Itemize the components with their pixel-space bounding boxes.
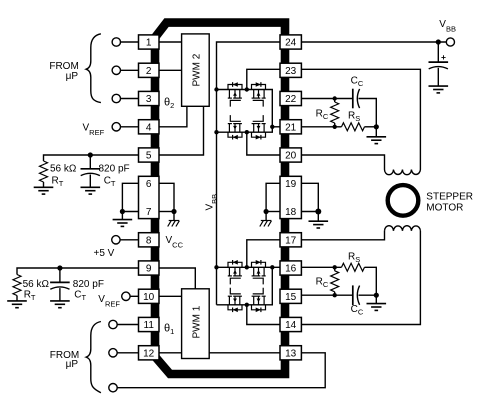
chassis ground pin6/7 [168,221,180,227]
wire CT1 to ground [89,175,91,188]
svg-text:18: 18 [285,207,297,218]
node pin19/18 right [315,209,321,215]
node pin6/7 right [171,209,176,214]
wire bottom terminal to pin13 loop [117,353,325,388]
wire bridge2 top to pin17 [247,240,280,267]
wire terminal to pin12 [117,352,138,354]
wire node to ground [375,127,377,137]
pin 23 [280,63,301,77]
wire CC2 to node [359,294,377,296]
wire pin13 to PWM1 right [209,352,280,354]
svg-text:PWM 2: PWM 2 [192,53,203,86]
svg-text:3: 3 [146,94,152,105]
wire RS2 to corner [365,267,377,295]
svg-text:μP: μP [66,359,79,370]
svg-text:12: 12 [143,348,155,359]
bridge1 top rail [217,90,273,133]
svg-text:16: 16 [285,264,297,275]
svg-text:+: + [441,52,446,62]
node bridge2 right [270,265,274,269]
resistor RS1 [342,123,365,131]
transistor Q6 (bridge2 top-right) [252,260,266,284]
transistor Q4 (bridge1 bottom-right) [252,115,266,139]
terminal bottom [109,384,117,392]
wire pin19 right to ground [301,183,318,211]
terminal pin1 [112,38,120,46]
svg-text:8: 8 [146,235,152,246]
wire pin16 to RS2 [301,266,341,268]
terminal pin4 [112,123,120,131]
pin 17 [280,233,301,247]
wire terminal to pin10 [130,295,138,297]
wire node to ground [317,212,319,222]
svg-text:56 kΩ: 56 kΩ [23,279,50,290]
pin 11 [139,317,160,331]
chassis ground pin19/18 [260,221,272,227]
node RC1 top [333,96,337,100]
wire node to chassis [173,212,175,221]
node bridge1 top center [245,87,249,91]
wire pin5 to PWM2 bottom [159,106,204,155]
ground CT2 [50,301,70,308]
svg-text:23: 23 [285,66,297,77]
wire node to chassis [265,212,267,221]
transistor Q5 (bridge2 top-left) [228,260,242,284]
wire pin18 right to ground [301,211,318,213]
brace FROM uP top [86,34,101,103]
PWM 1 block [182,289,210,359]
svg-text:14: 14 [285,320,297,331]
transistor Q8 (bridge2 bottom-right) [252,288,266,312]
svg-text:5: 5 [146,151,152,162]
ground pin6/7 left [113,220,133,227]
node RC2 top [333,265,337,269]
ground C1 [429,86,449,93]
IC body outline U1 [155,23,285,374]
terminal pin3 [112,94,120,102]
wire pin1 to PWM2 [159,41,182,43]
node RC2 bottom [333,293,337,297]
transistor Q2 (bridge1 top-right) [252,82,266,106]
svg-text:15: 15 [285,292,297,303]
stepper motor symbol [388,185,419,216]
svg-text:1: 1 [146,38,152,49]
svg-text:μP: μP [66,71,79,82]
node RS1 right [374,124,379,129]
ground pin19/18 [309,221,329,228]
svg-text:13: 13 [285,348,297,359]
node CT1 tap [88,152,93,157]
pin 15 [280,289,301,303]
node bridge2 bottom center [245,303,249,307]
capacitor CC2 [353,285,360,305]
wire pin14 to winding2 [301,231,420,325]
wire pin4 to PWM2 bottom [159,106,187,127]
wire pin10 to PWM1 [159,295,182,297]
transistor Q1 (bridge1 top-left) [228,82,242,106]
resistor RC1 [334,99,336,103]
node RC1 bottom [333,125,337,129]
svg-text:11: 11 [144,320,155,331]
wire pin18 left to chassis [266,211,280,213]
svg-text:2: 2 [146,66,152,77]
wire RS1 to node [365,126,377,128]
pin 3 [139,91,160,105]
resistor RC2 [334,267,336,271]
ground RT2 [7,301,27,308]
wire C1 to ground [437,68,439,86]
wire pin22 to CC1 [301,98,352,100]
pin 5 [139,148,160,162]
wire tap to CT2 [59,268,61,282]
svg-text:17: 17 [285,235,297,246]
terminal pin10 [122,292,130,300]
svg-text:PWM 1: PWM 1 [192,305,203,338]
node VBB-bridge2-top [214,265,218,269]
capacitor CT2 [50,282,70,289]
node pin19/18 left [264,209,269,214]
wire pin2 to PWM2 [159,69,182,71]
transistor Q7 (bridge2 bottom-left) [228,288,242,312]
terminal pin2 [112,66,120,74]
svg-text:4: 4 [146,122,152,133]
terminal pin8 [112,236,120,244]
wire pin16 into bridge2 [272,266,280,268]
node bridge2 top center [245,265,249,269]
svg-text:9: 9 [146,264,152,275]
wire terminal to pin8 [120,239,138,241]
pin 19/18 [280,176,301,218]
svg-text:21: 21 [285,122,297,133]
svg-text:56 kΩ: 56 kΩ [50,164,77,175]
wire terminal to pin1 [121,41,139,43]
wire RT2 to ground [16,296,18,301]
wire pin23 into bridge1 [247,69,280,89]
inductor winding1 [385,170,421,175]
wire pin7 right to chassis [159,211,174,213]
pin 13 [280,346,301,360]
pin 1 [139,35,160,49]
pin 24 [280,35,301,49]
node VBB-bridge1-top [214,87,218,91]
resistor RT2 [13,275,21,296]
resistor RT1 [40,161,48,182]
terminal pin11 [109,320,117,328]
svg-text:20: 20 [285,151,297,162]
capacitor CC1 [353,89,360,109]
svg-text:6: 6 [146,179,152,190]
capacitor C1 electrolytic [429,62,449,69]
svg-text:19: 19 [285,179,297,190]
ground RT1 [34,187,54,194]
wire node to ground [121,212,123,220]
wire terminal to pin3 [121,98,139,100]
wire terminal to pin11 [117,324,138,326]
node RS2 right [374,293,379,298]
pin 6/7 [139,176,160,218]
wire pin20 to winding1 [301,155,384,170]
svg-text:10: 10 [143,292,155,303]
svg-text:22: 22 [285,94,297,105]
inductor winding2 [385,226,421,231]
wire VBB node to C1 [437,42,439,62]
ground CT1 [81,187,101,194]
wire pin5 to RT1 [44,155,139,161]
wire node to ground [375,295,377,303]
transistor Q3 (bridge1 bottom-left) [228,115,242,139]
wire tap to CT1 [89,155,91,169]
wire pin19 left to chassis [266,183,280,211]
node pin6/7 left [120,209,125,214]
pin 4 [139,120,160,134]
node bridge1 right [270,125,274,129]
terminal VBB [446,38,454,46]
svg-text:STEPPER: STEPPER [426,192,473,203]
wire pin21 into bridge1 [272,126,280,128]
wire pin15 to CC2 [301,294,352,296]
wire pin17 to winding2 [301,231,384,240]
pin 22 [280,91,301,105]
PWM 2 block [182,34,210,106]
pin 16 [280,261,301,275]
node bridge1 bottom center [245,130,249,134]
bridge2 top rail [217,267,273,305]
pin 9 [139,261,160,275]
pin 12 [139,346,160,360]
node VBB-bridge1-bot [214,130,218,134]
pin 2 [139,63,160,77]
wire pin21 to RS1 [301,126,341,128]
wire bridge1 bottom to pin20 [247,132,280,155]
wire pin6 left to ground [122,183,138,211]
pin 21 [280,120,301,134]
ground RS1 [367,137,387,144]
pin 8 [139,233,160,247]
wire CT2 to ground [59,288,61,301]
wire pin12 to PWM1 [159,352,182,354]
wire pin9 to RT2 [17,268,139,275]
wire terminal to pin4 [121,126,139,128]
svg-text:24: 24 [285,38,297,49]
wire pin23 to winding1 [301,69,420,169]
svg-text:+5 V: +5 V [94,248,115,259]
svg-text:820 pF: 820 pF [99,164,130,175]
svg-text:820 pF: 820 pF [73,279,104,290]
wire pin9 to PWM1 top [159,268,195,289]
ground RS2 [367,304,387,311]
wire pin24 to VBB terminal [301,41,446,43]
wire pin7 left to ground [122,211,138,213]
capacitor CT1 [81,169,101,176]
wire bridge2 bottom to pin14 [247,305,280,325]
pin 10 [139,289,160,303]
brace FROM uP bottom [86,322,101,393]
svg-text:7: 7 [146,207,152,218]
terminal pin12 [109,349,117,357]
wire terminal to pin2 [121,69,139,71]
pin 20 [280,148,301,162]
wire CC1 to corner [359,99,377,127]
node CT2 tap [57,265,62,270]
node VBB [436,39,441,44]
resistor RS2 [342,263,365,271]
wire pin6 right to chassis [159,183,174,211]
pin 14 [280,317,301,331]
wire RT1 to ground [43,182,45,187]
VBB rail from pin 24 [217,42,281,305]
svg-text:MOTOR: MOTOR [426,203,463,214]
